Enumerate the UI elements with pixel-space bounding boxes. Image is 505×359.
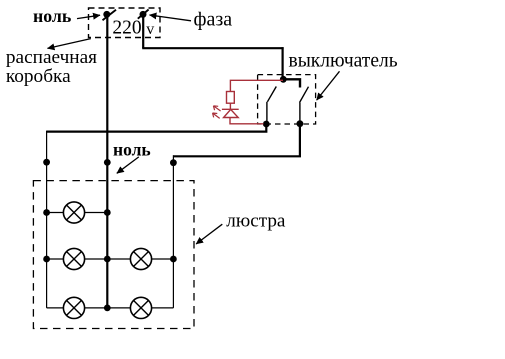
lamp L4 bbox=[130, 248, 151, 269]
node: row2 left bbox=[43, 256, 50, 263]
svg-text:220: 220 bbox=[112, 18, 141, 39]
node: row3 neutral end bbox=[104, 305, 111, 312]
node: neutral terminal top bbox=[103, 11, 110, 18]
node: switch S2 output bbox=[297, 120, 304, 127]
leader arrow: люстра bbox=[196, 224, 222, 244]
wire: left feed down into chandelier bbox=[46, 131, 48, 308]
leader arrow: распаечная коробка bbox=[48, 39, 91, 49]
leader arrow: ноль middle bbox=[117, 157, 139, 173]
svg-text:люстра: люстра bbox=[226, 210, 286, 231]
LED D1 cathode bar bbox=[222, 108, 239, 110]
wire: right feed down into chandelier bbox=[172, 155, 174, 308]
svg-text:фаза: фаза bbox=[194, 8, 233, 30]
svg-text:v: v bbox=[146, 21, 154, 38]
wire: switch common L to right pole bbox=[283, 79, 300, 87]
node: row1 left bbox=[43, 209, 50, 216]
junction box (распаечная коробка) dashed outline bbox=[89, 8, 161, 38]
node: switch S1 output bbox=[263, 121, 270, 128]
lamp L1 bbox=[63, 202, 84, 223]
wire: phase drop from top dot bbox=[142, 14, 144, 48]
chandelier box (люстра) dashed outline bbox=[33, 181, 194, 329]
wire: left switch output down-left run bbox=[47, 124, 267, 132]
svg-text:ноль: ноль bbox=[113, 140, 151, 160]
lamp L2 bbox=[63, 248, 84, 269]
node: left ceiling junction bbox=[43, 159, 50, 166]
lamp L5 bbox=[130, 297, 151, 318]
node: row1 neutral bbox=[104, 209, 111, 216]
terminal slash: phase bbox=[138, 10, 149, 19]
wire: phase down to switch common bbox=[282, 47, 284, 79]
resistor R1 bbox=[227, 92, 235, 104]
switch S1 lever bbox=[267, 87, 276, 102]
leader arrow: ноль top bbox=[77, 15, 100, 18]
svg-text:выключатель: выключатель bbox=[289, 51, 398, 72]
wire: resistor to LED bbox=[229, 103, 231, 109]
wire: phase horizontal run bbox=[142, 47, 283, 49]
wire: lamp row2 bbox=[47, 258, 174, 260]
node: switch common bbox=[280, 76, 287, 83]
wire: right switch output down-left run bbox=[173, 124, 300, 157]
terminal slash: neutral bbox=[103, 10, 117, 20]
node: phase terminal top bbox=[140, 11, 147, 18]
node: row2 neutral bbox=[104, 256, 111, 263]
LED D1 triangle bbox=[224, 109, 239, 117]
switch box (выключатель) dashed outline bbox=[258, 75, 316, 124]
LED emission arrow 2 bbox=[213, 113, 220, 118]
wire: LED branch top (red) bbox=[230, 80, 283, 91]
leader arrow: выключатель bbox=[317, 71, 340, 100]
switch S2 lever bbox=[300, 87, 309, 103]
svg-text:коробка: коробка bbox=[6, 66, 71, 87]
LED emission arrow 1 bbox=[213, 106, 220, 111]
node: neutral ceiling junction bbox=[104, 159, 111, 166]
lamp L3 bbox=[63, 297, 84, 318]
wire: neutral vertical main bbox=[106, 14, 108, 308]
wire: lamp row1 left bbox=[47, 212, 108, 214]
switch S1 lower contact bbox=[266, 102, 268, 122]
svg-text:ноль: ноль bbox=[33, 6, 71, 26]
leader arrow: фаза bbox=[150, 15, 192, 21]
node: right ceiling junction bbox=[170, 159, 177, 166]
wire: lamp row3 bbox=[47, 307, 174, 309]
switch S2 lower contact bbox=[299, 103, 301, 122]
node: row2 right bbox=[170, 256, 177, 263]
wire: LED branch bottom (red) bbox=[230, 118, 264, 124]
